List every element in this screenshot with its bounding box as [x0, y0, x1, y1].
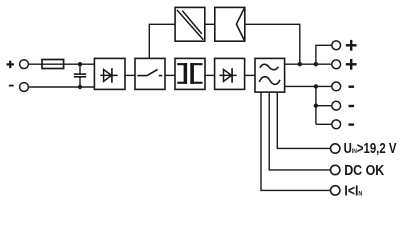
wire branch up to first + terminal	[316, 45, 332, 64]
terminal signal DC OK	[331, 165, 340, 174]
label + (input)	[7, 61, 14, 68]
terminal X1 + input	[20, 60, 29, 69]
terminal signal I<IN	[331, 186, 340, 195]
transformer T1 core windings	[177, 63, 202, 84]
wire output diode to filter	[245, 74, 255, 76]
DC/DC converter diagonal lines	[177, 10, 203, 40]
output diode block box	[215, 58, 245, 89]
boost block box (top)	[215, 7, 245, 41]
svg-text:UIN>19,2 V: UIN>19,2 V	[344, 139, 397, 156]
svg-text:DC OK: DC OK	[344, 162, 384, 178]
terminal X5 - output	[332, 82, 341, 91]
filter ripple wave bottom	[259, 77, 280, 85]
terminal X7 - output	[332, 120, 341, 129]
wire between top blocks	[205, 23, 215, 25]
wire filter to - terminals	[285, 85, 332, 87]
label - (input)	[9, 85, 14, 87]
terminal X3 + output	[332, 41, 341, 50]
switch S1 contact	[137, 70, 162, 76]
DC/DC converter block box (top)	[175, 7, 205, 41]
terminal X2 - input	[20, 83, 29, 92]
wire filter to + terminals	[285, 63, 332, 65]
capacitor C1	[74, 64, 86, 87]
transformer T1 box	[175, 58, 205, 89]
label + output 1	[346, 40, 357, 51]
node J4	[314, 62, 318, 66]
terminal X6 - output	[332, 101, 341, 110]
output diode D2	[219, 68, 236, 83]
filter ripple wave top	[260, 64, 278, 69]
label - output 1	[349, 86, 355, 88]
wire transformer to output diode	[205, 74, 215, 76]
wire switch top to booster row	[149, 24, 175, 58]
wire filter to I<IN signal	[261, 92, 330, 190]
terminal X4 + output	[332, 60, 341, 69]
wire rectifier to switch	[125, 74, 135, 76]
wire - terminal to rectifier	[29, 86, 95, 88]
wire filter to Uin signal	[277, 92, 330, 148]
svg-text:I<IN: I<IN	[344, 182, 362, 198]
boost block chevron	[236, 8, 244, 41]
rectifier block U1 box	[94, 58, 125, 89]
node J2	[78, 85, 82, 89]
rectifier diode D1	[100, 68, 117, 83]
node J3	[298, 62, 302, 66]
wire - bus down	[315, 86, 317, 124]
label - output 2	[349, 105, 355, 107]
wire boost block to + bus	[245, 24, 300, 64]
wire switch to transformer	[165, 74, 175, 76]
label + output 2	[346, 59, 357, 70]
label - output 3	[349, 123, 355, 125]
node J5	[314, 84, 318, 88]
wire branch to - terminal 2	[316, 105, 332, 107]
node J1	[78, 62, 82, 66]
terminal signal Uin	[331, 144, 340, 153]
switch block S1 box	[135, 58, 165, 89]
wire filter to DC OK signal	[269, 92, 330, 170]
node J6	[314, 104, 318, 108]
filter / monitoring block box	[255, 58, 285, 92]
fuse F1	[42, 60, 64, 69]
wire + terminal to fuse and on to rectifier	[29, 63, 95, 65]
wire branch to - terminal 3	[316, 123, 332, 125]
